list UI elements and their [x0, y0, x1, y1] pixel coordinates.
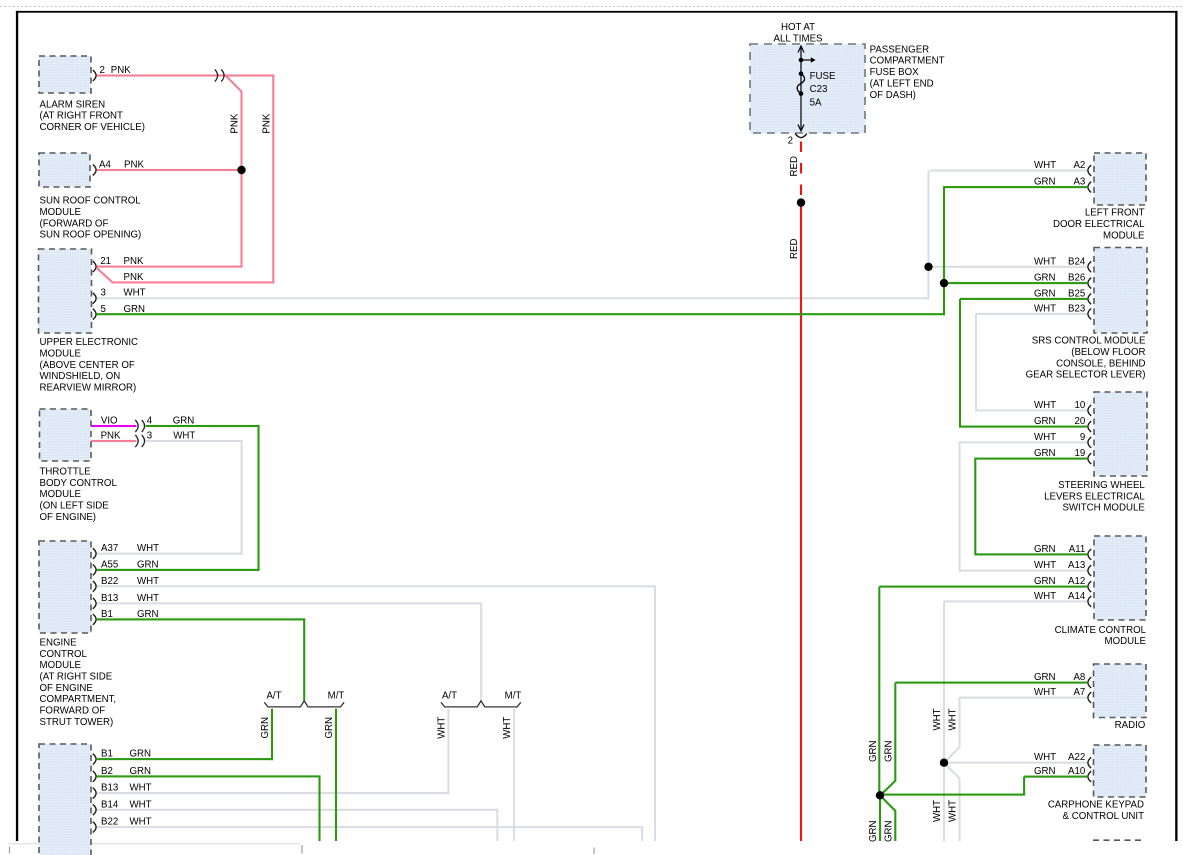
svg-text:WHT: WHT — [130, 799, 152, 810]
svg-text:GRN: GRN — [1034, 177, 1056, 188]
svg-text:WHT: WHT — [436, 717, 447, 739]
svg-text:A11: A11 — [1069, 544, 1086, 555]
svg-text:WHT: WHT — [1034, 687, 1056, 698]
svg-text:5: 5 — [101, 304, 106, 315]
svg-text:PNK: PNK — [261, 113, 272, 133]
svg-text:A/T: A/T — [266, 691, 281, 702]
svg-text:WHT: WHT — [124, 287, 146, 298]
svg-text:& CONTROL UNIT: & CONTROL UNIT — [1063, 811, 1145, 822]
svg-text:THROTTLE: THROTTLE — [40, 466, 92, 477]
svg-text:5A: 5A — [810, 98, 822, 109]
svg-text:GRN: GRN — [1034, 576, 1056, 587]
svg-text:19: 19 — [1075, 448, 1086, 459]
svg-text:GRN: GRN — [137, 560, 159, 571]
svg-text:GRN: GRN — [1034, 544, 1056, 555]
svg-text:B22: B22 — [101, 576, 118, 587]
svg-text:VIO: VIO — [101, 416, 118, 427]
svg-text:20: 20 — [1075, 416, 1086, 427]
svg-text:WINDSHIELD, ON: WINDSHIELD, ON — [40, 371, 121, 382]
svg-text:MODULE: MODULE — [1105, 636, 1147, 647]
svg-text:GRN: GRN — [883, 820, 894, 842]
svg-text:GRN: GRN — [130, 749, 152, 760]
svg-text:A14: A14 — [1068, 591, 1086, 602]
svg-text:WHT: WHT — [948, 800, 959, 822]
svg-text:B13: B13 — [101, 593, 118, 604]
svg-text:STRUT TOWER): STRUT TOWER) — [40, 717, 114, 728]
svg-text:FUSE BOX: FUSE BOX — [870, 67, 920, 78]
svg-text:3: 3 — [101, 287, 106, 298]
svg-text:WHT: WHT — [932, 800, 943, 822]
svg-text:A55: A55 — [101, 560, 118, 571]
svg-text:STEERING WHEEL: STEERING WHEEL — [1058, 480, 1145, 491]
svg-text:DOOR ELECTRICAL: DOOR ELECTRICAL — [1053, 219, 1145, 230]
svg-text:OF DASH): OF DASH) — [870, 90, 916, 101]
svg-text:4: 4 — [147, 416, 153, 427]
svg-text:CARPHONE KEYPAD: CARPHONE KEYPAD — [1048, 800, 1144, 811]
svg-text:GRN: GRN — [324, 717, 335, 739]
svg-text:WHT: WHT — [1034, 752, 1056, 763]
svg-text:(FORWARD OF: (FORWARD OF — [40, 218, 109, 229]
svg-text:WHT: WHT — [932, 708, 943, 730]
svg-text:MODULE: MODULE — [40, 489, 82, 500]
svg-text:B25: B25 — [1068, 288, 1085, 299]
svg-text:WHT: WHT — [1034, 303, 1056, 314]
svg-text:PNK: PNK — [111, 65, 131, 76]
svg-text:A37: A37 — [101, 543, 118, 554]
svg-text:WHT: WHT — [1034, 432, 1056, 443]
svg-text:A/T: A/T — [442, 691, 457, 702]
svg-text:WHT: WHT — [1034, 256, 1056, 267]
svg-text:CLIMATE CONTROL: CLIMATE CONTROL — [1055, 625, 1147, 636]
svg-text:(AT RIGHT SIDE: (AT RIGHT SIDE — [40, 672, 113, 683]
svg-text:GRN: GRN — [260, 717, 271, 739]
svg-text:FORWARD OF: FORWARD OF — [40, 706, 106, 717]
svg-text:(ABOVE CENTER OF: (ABOVE CENTER OF — [40, 360, 135, 371]
svg-text:B14: B14 — [101, 799, 119, 810]
svg-text:OF ENGINE: OF ENGINE — [40, 683, 94, 694]
svg-text:PNK: PNK — [124, 160, 144, 171]
svg-text:GRN: GRN — [1034, 766, 1056, 777]
svg-text:PNK: PNK — [124, 256, 144, 267]
svg-text:FUSE: FUSE — [810, 71, 836, 82]
svg-text:UPPER ELECTRONIC: UPPER ELECTRONIC — [40, 337, 139, 348]
svg-text:ALARM SIREN: ALARM SIREN — [40, 99, 106, 110]
svg-text:B26: B26 — [1068, 273, 1085, 284]
svg-text:A8: A8 — [1073, 672, 1085, 683]
svg-text:B24: B24 — [1068, 256, 1086, 267]
svg-text:2: 2 — [100, 65, 105, 76]
svg-text:M/T: M/T — [328, 691, 345, 702]
svg-text:A3: A3 — [1073, 177, 1085, 188]
svg-text:RED: RED — [789, 239, 800, 259]
svg-text:PASSENGER: PASSENGER — [870, 44, 930, 55]
svg-text:GRN: GRN — [130, 766, 152, 777]
svg-text:REARVIEW MIRROR): REARVIEW MIRROR) — [40, 383, 137, 394]
svg-text:GRN: GRN — [1034, 672, 1056, 683]
svg-text:OF ENGINE): OF ENGINE) — [40, 512, 97, 523]
svg-text:LEVERS ELECTRICAL: LEVERS ELECTRICAL — [1044, 491, 1145, 502]
svg-text:WHT: WHT — [948, 708, 959, 730]
svg-text:HOT AT: HOT AT — [781, 22, 815, 33]
svg-text:A10: A10 — [1068, 766, 1086, 777]
svg-text:WHT: WHT — [137, 576, 159, 587]
svg-text:(BELOW FLOOR: (BELOW FLOOR — [1071, 347, 1145, 358]
svg-text:PNK: PNK — [101, 431, 121, 442]
svg-text:GRN: GRN — [883, 740, 894, 762]
svg-text:10: 10 — [1075, 400, 1086, 411]
svg-text:MODULE: MODULE — [40, 660, 82, 671]
svg-text:GRN: GRN — [1034, 288, 1056, 299]
svg-text:(AT LEFT END: (AT LEFT END — [870, 78, 934, 89]
svg-text:GRN: GRN — [1034, 273, 1056, 284]
svg-text:ENGINE: ENGINE — [40, 637, 78, 648]
svg-text:SWITCH MODULE: SWITCH MODULE — [1062, 503, 1145, 514]
svg-text:WHT: WHT — [1034, 560, 1056, 571]
svg-text:WHT: WHT — [1034, 400, 1056, 411]
svg-text:GRN: GRN — [868, 740, 879, 762]
svg-text:CONTROL: CONTROL — [40, 649, 88, 660]
svg-text:LEFT FRONT: LEFT FRONT — [1085, 208, 1145, 219]
svg-text:WHT: WHT — [502, 717, 513, 739]
svg-text:SRS CONTROL MODULE: SRS CONTROL MODULE — [1032, 336, 1146, 347]
svg-text:B1: B1 — [101, 749, 113, 760]
svg-text:MODULE: MODULE — [40, 207, 82, 218]
svg-text:GRN: GRN — [137, 609, 159, 620]
svg-text:B13: B13 — [101, 783, 118, 794]
svg-text:WHT: WHT — [1034, 591, 1056, 602]
svg-text:CONSOLE, BEHIND: CONSOLE, BEHIND — [1056, 358, 1145, 369]
svg-text:A12: A12 — [1068, 576, 1085, 587]
svg-text:(AT RIGHT FRONT: (AT RIGHT FRONT — [40, 111, 123, 122]
svg-text:GRN: GRN — [1034, 448, 1056, 459]
svg-text:SUN ROOF CONTROL: SUN ROOF CONTROL — [40, 196, 142, 207]
svg-text:GRN: GRN — [1034, 416, 1056, 427]
svg-text:2: 2 — [788, 136, 793, 147]
svg-text:RADIO: RADIO — [1115, 720, 1146, 731]
svg-text:GRN: GRN — [868, 820, 879, 842]
svg-text:CORNER OF VEHICLE): CORNER OF VEHICLE) — [40, 122, 146, 133]
svg-text:B23: B23 — [1068, 303, 1085, 314]
svg-text:RED: RED — [789, 156, 800, 176]
svg-text:C23: C23 — [810, 84, 828, 95]
svg-text:A13: A13 — [1068, 560, 1085, 571]
svg-text:A4: A4 — [99, 160, 111, 171]
svg-text:WHT: WHT — [173, 431, 195, 442]
svg-text:MODULE: MODULE — [40, 349, 82, 360]
svg-text:GRN: GRN — [124, 304, 146, 315]
svg-text:WHT: WHT — [130, 783, 152, 794]
svg-text:SUN ROOF OPENING): SUN ROOF OPENING) — [40, 230, 142, 241]
svg-text:PNK: PNK — [124, 272, 144, 283]
svg-text:B22: B22 — [101, 817, 118, 828]
svg-text:B1: B1 — [101, 609, 113, 620]
svg-text:3: 3 — [147, 431, 152, 442]
svg-text:ALL TIMES: ALL TIMES — [774, 34, 824, 45]
svg-text:COMPARTMENT,: COMPARTMENT, — [40, 694, 117, 705]
svg-text:WHT: WHT — [1034, 160, 1056, 171]
svg-text:A2: A2 — [1073, 160, 1085, 171]
svg-text:21: 21 — [100, 256, 111, 267]
svg-text:A7: A7 — [1073, 687, 1085, 698]
svg-text:BODY CONTROL: BODY CONTROL — [40, 478, 118, 489]
svg-text:9: 9 — [1080, 432, 1085, 443]
svg-text:A22: A22 — [1068, 752, 1085, 763]
svg-text:GRN: GRN — [173, 416, 195, 427]
svg-text:WHT: WHT — [137, 593, 159, 604]
svg-text:GEAR SELECTOR LEVER): GEAR SELECTOR LEVER) — [1026, 370, 1146, 381]
svg-text:WHT: WHT — [130, 817, 152, 828]
svg-text:(ON LEFT SIDE: (ON LEFT SIDE — [40, 501, 110, 512]
svg-text:MODULE: MODULE — [1103, 230, 1145, 241]
svg-text:M/T: M/T — [505, 691, 522, 702]
svg-text:B2: B2 — [101, 766, 113, 777]
svg-text:WHT: WHT — [137, 543, 159, 554]
svg-text:PNK: PNK — [230, 113, 241, 133]
svg-text:COMPARTMENT: COMPARTMENT — [870, 56, 945, 67]
